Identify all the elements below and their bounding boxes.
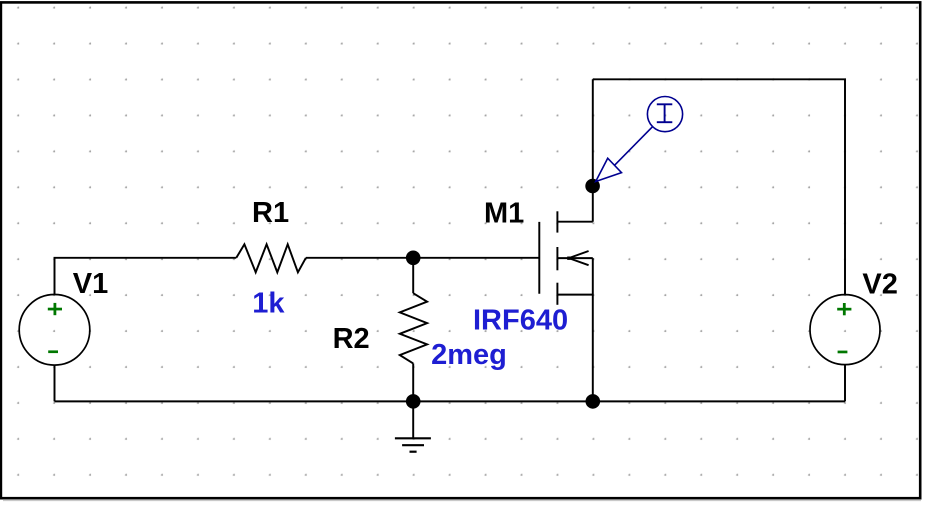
mosfet M1 channel segment middle: [556, 247, 558, 270]
V1 plus sign: [48, 303, 62, 315]
wire: V1 bottom lead: [54, 365, 56, 401]
svg-text:IRF640: IRF640: [473, 304, 568, 336]
wire: bottom net: [55, 400, 846, 402]
resistor R1 zigzag: [236, 244, 306, 272]
svg-text:V2: V2: [862, 268, 897, 300]
mosfet M1 body stub: [557, 257, 592, 259]
svg-text:1k: 1k: [252, 288, 285, 320]
wire: R2 to bottom net: [412, 363, 414, 401]
svg-text:M1: M1: [484, 197, 524, 229]
voltage source V2 circle: [810, 295, 880, 365]
voltage source V1 circle: [19, 295, 90, 366]
resistor R2 zigzag: [400, 293, 427, 363]
wire: V2 bottom lead: [844, 364, 846, 401]
current probe I-beam glyph: [657, 104, 673, 122]
wire: gate node down to R2: [412, 258, 414, 293]
current probe arrowhead: [596, 158, 622, 181]
ground symbol: [395, 438, 431, 451]
node junction dot source bottom: [586, 394, 601, 409]
wire: ground stem: [412, 401, 414, 438]
mosfet M1 source stub: [557, 294, 592, 296]
current probe pointer line: [615, 127, 653, 165]
wire: gate node to M1 gate: [413, 257, 539, 259]
wire: M1 drain up to top net: [592, 79, 594, 221]
mosfet M1 body arrow: [569, 251, 589, 265]
node junction dot R2 bottom: [406, 394, 421, 409]
wire: top net V1 to R1: [55, 258, 237, 294]
mosfet M1 channel segment top: [556, 211, 558, 232]
wire: M1 source down to bottom net: [592, 258, 594, 401]
mosfet M1 gate bar: [538, 222, 540, 294]
mosfet M1 channel segment bottom: [556, 283, 558, 305]
V1 minus sign: [48, 350, 58, 353]
svg-text:R1: R1: [252, 197, 289, 229]
svg-text:V1: V1: [73, 268, 108, 300]
V2 plus sign: [837, 303, 851, 315]
svg-text:R2: R2: [333, 323, 370, 355]
current probe circle: [647, 97, 682, 132]
node junction dot drain probe: [585, 179, 600, 194]
node junction dot gate: [406, 250, 421, 265]
wire: top net to V2: [593, 79, 845, 294]
mosfet M1 drain stub: [557, 221, 592, 223]
V2 minus sign: [838, 351, 848, 354]
wire: R1 to gate node: [306, 257, 413, 259]
svg-text:2meg: 2meg: [431, 339, 507, 371]
